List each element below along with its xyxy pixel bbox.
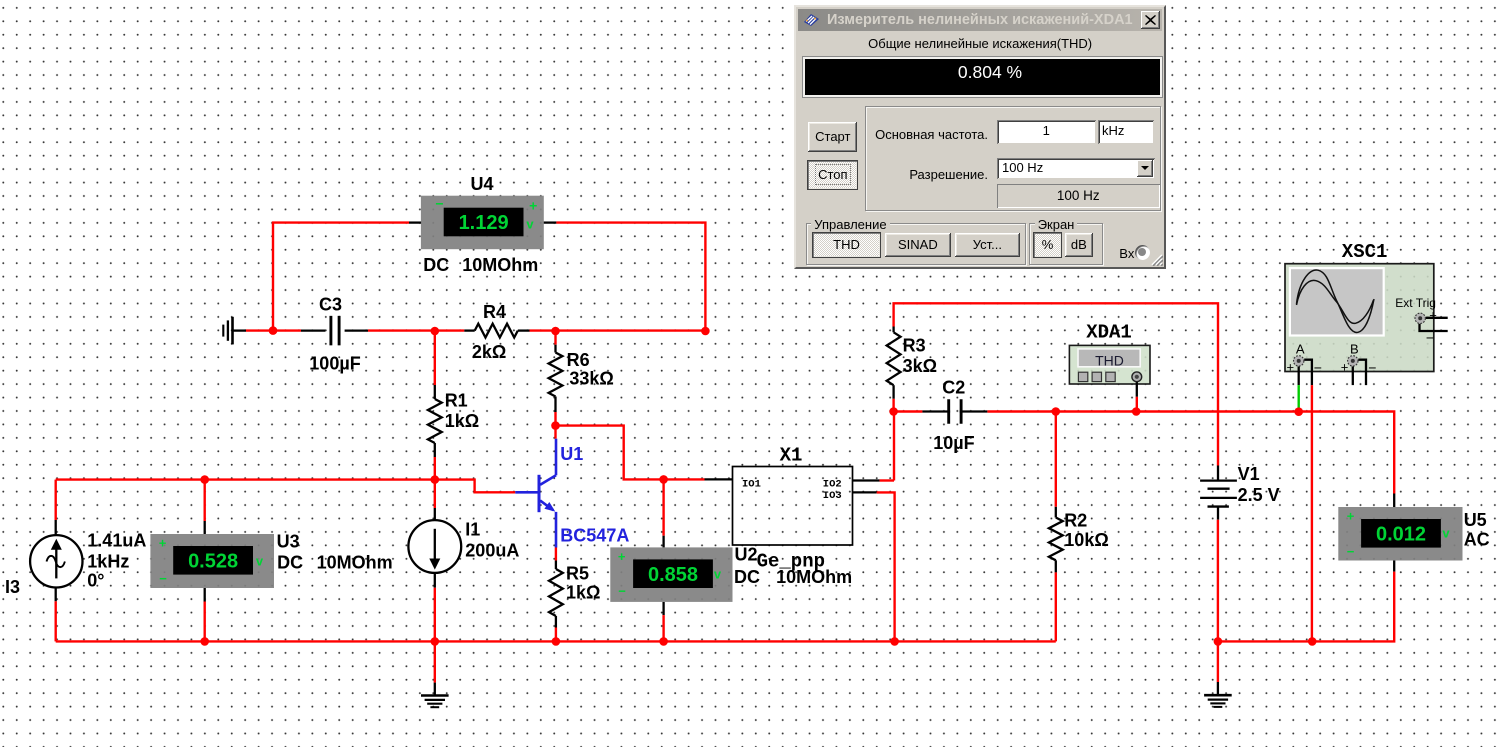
svg-text:+: + — [1341, 360, 1349, 375]
svg-text:10MOhm: 10MOhm — [317, 552, 393, 572]
svg-text:THD: THD — [1095, 352, 1124, 368]
svg-text:0.012: 0.012 — [1376, 524, 1426, 546]
svg-text:−: − — [159, 571, 167, 586]
svg-text:XSC1: XSC1 — [1342, 241, 1388, 263]
svg-text:IO1: IO1 — [742, 479, 761, 491]
svg-text:DC: DC — [277, 552, 303, 572]
svg-text:−: − — [618, 584, 626, 599]
svg-text:U4: U4 — [471, 174, 494, 194]
svg-text:−: − — [1347, 544, 1355, 559]
svg-text:100µF: 100µF — [309, 354, 360, 374]
svg-text:+: + — [1287, 360, 1295, 375]
svg-text:−: − — [1426, 330, 1434, 346]
svg-text:U5: U5 — [1464, 510, 1487, 530]
svg-text:IO2: IO2 — [823, 479, 842, 491]
svg-text:+: + — [1429, 308, 1437, 323]
svg-text:+: + — [159, 536, 167, 551]
svg-text:1kΩ: 1kΩ — [566, 583, 600, 603]
svg-text:BC547A: BC547A — [560, 526, 629, 546]
svg-text:+: + — [618, 549, 626, 564]
svg-text:v: v — [1442, 526, 1450, 541]
svg-text:+: + — [529, 197, 537, 213]
svg-text:R1: R1 — [445, 391, 468, 411]
svg-text:33kΩ: 33kΩ — [569, 369, 613, 389]
svg-text:C2: C2 — [942, 378, 965, 398]
svg-text:1kHz: 1kHz — [87, 552, 129, 572]
svg-text:1kΩ: 1kΩ — [445, 411, 479, 431]
svg-text:0°: 0° — [87, 571, 104, 591]
svg-text:R4: R4 — [483, 302, 506, 322]
svg-text:10µF: 10µF — [933, 433, 974, 453]
svg-text:200uA: 200uA — [465, 540, 519, 560]
svg-text:R6: R6 — [567, 350, 590, 370]
svg-text:v: v — [256, 554, 264, 569]
svg-text:R3: R3 — [903, 336, 926, 356]
svg-text:U1: U1 — [560, 444, 583, 464]
svg-text:−: − — [1368, 360, 1376, 376]
svg-text:0.528: 0.528 — [188, 551, 238, 573]
svg-text:R5: R5 — [566, 564, 589, 584]
svg-text:Ge_pnp: Ge_pnp — [757, 551, 825, 573]
svg-text:3kΩ: 3kΩ — [903, 356, 937, 376]
svg-text:U2: U2 — [735, 545, 758, 565]
svg-text:I1: I1 — [465, 520, 480, 540]
svg-text:v: v — [526, 217, 534, 232]
svg-text:A: A — [1296, 342, 1305, 357]
svg-text:IO3: IO3 — [823, 490, 842, 502]
svg-text:DC: DC — [423, 255, 449, 275]
svg-text:v: v — [714, 567, 722, 582]
svg-text:U3: U3 — [277, 532, 300, 552]
svg-text:X1: X1 — [780, 444, 803, 466]
svg-text:2.5 V: 2.5 V — [1238, 485, 1280, 505]
svg-text:B: B — [1350, 342, 1359, 357]
svg-text:XDA1: XDA1 — [1086, 322, 1132, 344]
svg-text:−: − — [435, 196, 443, 212]
svg-text:0.858: 0.858 — [648, 564, 698, 586]
svg-text:2kΩ: 2kΩ — [472, 342, 506, 362]
svg-text:10kΩ: 10kΩ — [1064, 530, 1108, 550]
svg-text:AC: AC — [1464, 530, 1490, 550]
svg-text:+: + — [1347, 509, 1355, 524]
svg-text:R2: R2 — [1064, 511, 1087, 531]
svg-text:1.41uA: 1.41uA — [87, 530, 146, 550]
svg-text:V1: V1 — [1238, 464, 1260, 484]
svg-text:10MOhm: 10MOhm — [462, 255, 538, 275]
svg-text:I3: I3 — [5, 577, 20, 597]
svg-text:−: − — [1314, 360, 1322, 376]
svg-text:1.129: 1.129 — [459, 212, 509, 234]
svg-text:C3: C3 — [319, 295, 342, 315]
